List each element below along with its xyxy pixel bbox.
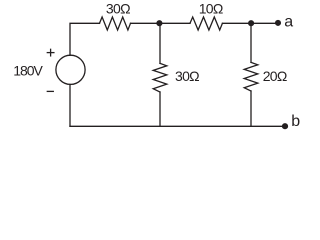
wire left branch: source top lead and top wire to R1 — [70, 23, 100, 55]
wire top from R2 to terminal a — [222, 22, 277, 24]
resistor R3 30ohm vertical zigzag — [153, 63, 167, 92]
voltage source VS 180V circle — [56, 55, 85, 84]
svg-text:30Ω: 30Ω — [175, 68, 199, 84]
wire middle branch upper lead — [159, 23, 161, 63]
resistor R2 10ohm horizontal zigzag — [190, 17, 222, 30]
resistor R4 20ohm vertical zigzag — [244, 62, 258, 91]
node junction dot at R2/R4 top node — [248, 20, 254, 26]
wire top between R1 and R2 — [131, 22, 191, 24]
node junction dot at R1/R2/R3 top node — [156, 20, 162, 26]
terminal dot b — [282, 123, 288, 129]
terminal dot a — [275, 20, 281, 26]
svg-text:20Ω: 20Ω — [263, 68, 287, 84]
svg-text:30Ω: 30Ω — [106, 1, 130, 17]
resistor R1 30ohm horizontal zigzag — [100, 17, 131, 30]
svg-text:180V: 180V — [13, 63, 43, 79]
wire middle branch lower lead — [159, 92, 161, 126]
wire bottom rail to terminal b — [70, 125, 284, 127]
minus sign of source polarity — [47, 90, 53, 92]
wire right branch lower lead — [250, 91, 252, 126]
svg-text:a: a — [284, 14, 293, 31]
plus sign of source polarity — [47, 52, 54, 54]
svg-text:b: b — [291, 113, 300, 130]
wire right branch upper lead — [250, 23, 252, 62]
svg-text:10Ω: 10Ω — [199, 1, 223, 17]
wire source bottom lead — [69, 84, 71, 126]
